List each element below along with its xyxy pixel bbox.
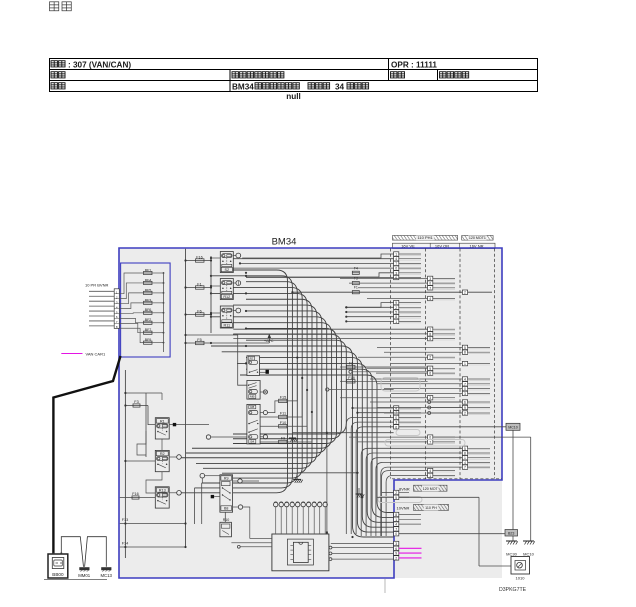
svg-text:4: 4: [395, 257, 397, 261]
open terminal circle 2: [326, 388, 394, 391]
inline fuse F3 on row: [352, 276, 359, 284]
connector separator (dashed) x460: [459, 249, 461, 479]
svg-text:6: 6: [464, 401, 466, 405]
svg-text:BF6: BF6: [145, 308, 152, 312]
baseline under battery group: [44, 578, 107, 580]
svg-text:110 PH: 110 PH: [425, 506, 437, 510]
net highlight outline 1: [381, 378, 420, 392]
wire to 1010 unit: [399, 497, 511, 566]
fuse BF9: [144, 338, 153, 344]
svg-text:1: 1: [464, 456, 466, 460]
open terminal circle: [349, 370, 428, 373]
svg-text:9: 9: [395, 552, 397, 556]
svg-text:R8: R8: [250, 405, 254, 409]
svg-text:4: 4: [464, 378, 466, 382]
ground wires goalpost: [61, 537, 106, 567]
unit 1010: [511, 557, 530, 581]
label 10 PR BVNR: [85, 283, 108, 288]
svg-text:BF5: BF5: [145, 288, 152, 292]
diagram code D3PKG7TE: [499, 587, 527, 593]
connector label 8VNR + 120 MOT (hatched): [399, 485, 447, 491]
svg-text:2: 2: [395, 491, 397, 495]
fuse BF4: [144, 278, 153, 284]
connector 16V OR pin boxes: [428, 276, 433, 478]
svg-text:R13: R13: [159, 488, 166, 492]
connector 8VNR/10VNR pin boxes: [394, 490, 399, 560]
wire col2 to ground drop: [433, 436, 531, 438]
ECU left wires: [231, 539, 272, 549]
fuse BF5: [144, 288, 153, 294]
table row2: 范围 | 防护装置和车门 | 功能 | 中央门锁: [51, 72, 469, 78]
R9 right terminals: [233, 479, 259, 539]
svg-text:1: 1: [464, 362, 466, 366]
svg-text:MM01: MM01: [78, 573, 91, 578]
terminal circle near R1: [206, 435, 247, 439]
wire bundle B (fan from relays, turns down mid-page): [181, 270, 346, 524]
svg-text:4: 4: [429, 469, 431, 473]
wire bundle C (to 8VNR/10VNR connector): [211, 346, 394, 537]
black terminal left of R9: [211, 495, 220, 498]
svg-text:5: 5: [395, 311, 397, 315]
svg-text:0: 0: [395, 416, 397, 420]
relay R1: [155, 418, 169, 439]
svg-text:2: 2: [429, 356, 431, 360]
svg-text:1: 1: [395, 518, 397, 522]
svg-text:3: 3: [395, 542, 397, 546]
ground mid: [293, 473, 357, 483]
svg-text:5: 5: [429, 337, 431, 341]
svg-text:7: 7: [464, 466, 466, 470]
svg-text:5: 5: [464, 346, 466, 350]
svg-text:D3PKG7TE: D3PKG7TE: [499, 587, 527, 593]
wire bus to R1 right circuit: [169, 423, 209, 426]
svg-text:OPR : 11111: OPR : 11111: [391, 60, 437, 69]
svg-text:null: null: [286, 92, 301, 101]
svg-text:F18: F18: [348, 376, 355, 380]
schematic title BM34: [272, 237, 297, 248]
svg-text:R9: R9: [224, 476, 229, 480]
ECU right wires to connector: [329, 546, 394, 560]
svg-text:8: 8: [395, 513, 397, 517]
ground MC10: [523, 541, 535, 557]
svg-text:8VNR: 8VNR: [399, 486, 410, 491]
svg-text:1010: 1010: [516, 576, 526, 581]
bus C (x125.4): [124, 370, 126, 558]
circle terminal above R9: [200, 473, 220, 483]
svg-text:MC10: MC10: [523, 552, 534, 557]
relay R7: [247, 356, 260, 376]
svg-text:7: 7: [395, 262, 397, 266]
svg-text:6: 6: [395, 425, 397, 429]
terminal mark near R7: [260, 370, 269, 374]
wires into 16V VE stack C: [346, 407, 393, 534]
ground small top: [289, 433, 298, 442]
connector label row frame: [393, 243, 496, 248]
svg-text:0: 0: [429, 436, 431, 440]
svg-text:3: 3: [429, 396, 431, 400]
svg-text:9: 9: [429, 367, 431, 371]
table row1: 车辆 : 307 (VAN/CAN) | OPR : 11111: [51, 60, 437, 69]
svg-text:F2: F2: [349, 362, 353, 366]
net highlight outline 2: [385, 440, 465, 447]
bus D (x146): [145, 393, 147, 457]
diagram gray panel: [119, 248, 502, 578]
svg-text:1: 1: [395, 320, 397, 324]
relay R11: [220, 306, 240, 328]
svg-text:R1: R1: [160, 419, 165, 423]
svg-text:BF4: BF4: [145, 278, 152, 282]
svg-text:5: 5: [464, 447, 466, 451]
svg-text:MC10: MC10: [508, 426, 518, 430]
page artifact line below panel: [384, 579, 386, 593]
svg-text:4: 4: [429, 297, 431, 301]
fuse F5: [184, 338, 212, 345]
svg-text:BM34: BM34: [232, 82, 254, 91]
svg-text:BB00: BB00: [52, 572, 64, 577]
10VNR pin stubs: [399, 515, 421, 525]
8VNR pin stubs: [399, 493, 409, 498]
svg-text:120 MOT: 120 MOT: [423, 487, 439, 491]
wire bus A to R6: [184, 334, 247, 385]
wire to MC10 label: [399, 426, 506, 428]
long vertical to circles: [293, 432, 394, 534]
title 打印 (Print): [50, 2, 72, 11]
svg-text:MC30: MC30: [506, 552, 517, 557]
pin box right stub wires: [399, 254, 492, 477]
bus A (x185.5): [185, 249, 187, 547]
wire F13: [120, 518, 187, 524]
svg-text:6: 6: [395, 276, 397, 280]
fuse F15: [268, 357, 299, 413]
fuse F1: [184, 282, 212, 289]
relay R10: [220, 518, 232, 537]
fuse F11: [260, 377, 303, 419]
svg-text:5: 5: [395, 496, 397, 500]
svg-text:3: 3: [464, 392, 466, 396]
+APC supply arrow: [211, 334, 274, 344]
svg-text:8: 8: [429, 332, 431, 336]
fuse F16: [184, 255, 212, 262]
svg-text:10 PR BVNR: 10 PR BVNR: [85, 283, 108, 288]
wires into sub pins from left: [331, 493, 394, 544]
junction dots: [245, 275, 364, 538]
fuse BF1: [144, 268, 153, 274]
fuse BF7: [144, 328, 153, 334]
svg-text:1: 1: [395, 253, 397, 257]
wires bus B to relays: [210, 257, 220, 314]
svg-text:BF2: BF2: [145, 318, 152, 322]
svg-text:6: 6: [395, 547, 397, 551]
svg-text:2: 2: [395, 306, 397, 310]
CAN wires (magenta): [399, 548, 422, 558]
ground mid2: [356, 488, 365, 498]
svg-text:0: 0: [464, 387, 466, 391]
svg-text:F1: F1: [354, 286, 358, 290]
battery BB00: [48, 553, 68, 578]
svg-text:BF7: BF7: [145, 328, 152, 332]
wire R2 feed: [124, 455, 181, 462]
relay R2: [155, 450, 169, 471]
fuse BF6: [144, 308, 153, 314]
svg-text:2: 2: [464, 291, 466, 295]
svg-text:B23: B23: [508, 532, 514, 536]
svg-text:110 PH1: 110 PH1: [417, 235, 433, 240]
table row3: 部件 | BM34 中央电气系统 发动机 34 保险丝: [51, 82, 369, 91]
svg-text:1: 1: [429, 474, 431, 478]
MC10 boxed label: [506, 423, 520, 430]
net highlight outline 4: [396, 430, 420, 436]
inline fuse F1 on row: [352, 286, 359, 294]
svg-text:F4: F4: [354, 266, 358, 270]
open terminals col2 area: [428, 401, 463, 415]
svg-text:2: 2: [395, 556, 397, 560]
svg-text:S2: S2: [224, 268, 229, 272]
svg-text:R2: R2: [160, 452, 165, 456]
header table frame: [50, 59, 538, 92]
svg-text:MB: MB: [250, 395, 255, 399]
battery supply wire (thick): [53, 356, 120, 554]
relay R9: [220, 475, 233, 512]
connector pin column (10PR): [114, 289, 119, 329]
svg-text:34: 34: [335, 82, 345, 91]
svg-text:F14: F14: [122, 542, 129, 546]
svg-text:: 307 (VAN/CAN): : 307 (VAN/CAN): [68, 60, 131, 69]
fuse BF3: [144, 298, 153, 304]
svg-text:7: 7: [395, 527, 397, 531]
drop wires to R10: [224, 512, 226, 522]
svg-text:0: 0: [395, 532, 397, 536]
ground MC13: [100, 567, 112, 578]
connector separator (dashed) x425.5: [425, 249, 427, 479]
wires into connector 10PR: [89, 291, 114, 326]
fuse F6: [184, 309, 212, 316]
svg-text:9: 9: [464, 406, 466, 410]
ECU inner frame: [287, 539, 313, 565]
relay S2: [220, 252, 240, 273]
wire y393: [124, 392, 162, 400]
staircase R1-R2: [137, 431, 162, 493]
fuse F10: [260, 389, 308, 428]
bus B (x211): [210, 256, 212, 333]
net highlight outline 3: [378, 497, 422, 503]
svg-text:1: 1: [429, 328, 431, 332]
relay R6: [247, 381, 268, 400]
ground MC30: [506, 541, 518, 557]
ground MM01: [78, 567, 91, 578]
relay R13: [155, 487, 169, 508]
svg-text:0: 0: [429, 282, 431, 286]
fuse F2: [340, 362, 428, 369]
svg-text:4: 4: [464, 461, 466, 465]
connector label 16V VE: [401, 243, 415, 248]
svg-text:10VNR: 10VNR: [397, 506, 410, 511]
connector label 10VNR + 110 PH (hatched): [397, 504, 449, 510]
wire R13 feed F16b: [120, 491, 182, 500]
fuse F18: [340, 376, 428, 383]
ECU block outer: [272, 534, 329, 571]
internal fuse box border (blue): [121, 263, 171, 357]
svg-text:4: 4: [395, 407, 397, 411]
connector label 16V OR: [435, 243, 449, 248]
B23 boxed label: [505, 530, 518, 537]
svg-text:7: 7: [464, 382, 466, 386]
svg-text:R10: R10: [223, 518, 230, 522]
fuse BF2: [144, 318, 153, 324]
fuse F9: [260, 411, 313, 444]
svg-text:4: 4: [395, 523, 397, 527]
wires into 16V OR pins: [233, 278, 427, 536]
wires relays to 16V VE upper pins: [233, 254, 393, 278]
svg-text:0: 0: [395, 267, 397, 271]
relay R12: [220, 279, 240, 300]
svg-text:BM34: BM34: [272, 237, 297, 248]
svg-text:BF9: BF9: [145, 338, 152, 342]
svg-text:3: 3: [395, 421, 397, 425]
IC chip: [290, 542, 311, 562]
svg-text:R11: R11: [223, 324, 230, 328]
svg-text:2: 2: [464, 412, 466, 416]
wires into 16V VE stack B: [345, 303, 393, 323]
svg-text:B4: B4: [250, 440, 254, 444]
connector separator (dashed) x494.5: [494, 249, 496, 479]
svg-text:MC13: MC13: [100, 573, 112, 578]
svg-text:8: 8: [464, 452, 466, 456]
connector header 110 PH1 (hatched): [393, 235, 458, 240]
connector region bottom (dashed) y479: [392, 478, 502, 480]
wire F14: [120, 542, 187, 548]
ground drop verticals: [513, 430, 531, 541]
svg-text:3: 3: [429, 277, 431, 281]
svg-text:B8: B8: [224, 507, 228, 511]
svg-text:R7: R7: [250, 356, 254, 360]
BM34 unit border (blue): [119, 248, 502, 578]
svg-text:F13: F13: [122, 518, 129, 522]
connector 16V NR pin boxes: [462, 290, 467, 470]
connector header 120 MOT1 (hatched): [462, 236, 493, 241]
svg-text:BF3: BF3: [145, 298, 152, 302]
relay R8 (tall): [247, 404, 268, 444]
svg-text:9: 9: [395, 301, 397, 305]
caption null: [286, 92, 301, 101]
connector separator (dashed) x390.6: [390, 249, 392, 479]
svg-text:7: 7: [429, 440, 431, 444]
connector 16V VE pin boxes: [394, 252, 399, 429]
svg-text:R12: R12: [223, 295, 230, 299]
sensor circles row: [274, 502, 328, 534]
wires into 16V NR pins: [291, 291, 462, 536]
svg-text:BF1: BF1: [145, 268, 152, 272]
svg-text:3: 3: [395, 271, 397, 275]
svg-text:8: 8: [464, 351, 466, 355]
svg-text:8: 8: [395, 315, 397, 319]
svg-text:VAN CAR1: VAN CAR1: [86, 351, 106, 356]
connector label 16V NR: [469, 243, 483, 248]
wire F3 feed: [124, 400, 155, 424]
wire to B23: [399, 533, 505, 535]
svg-text:7: 7: [429, 286, 431, 290]
wires pins to fuses + bus: [119, 272, 164, 352]
VAN CAR1 net (magenta): [61, 351, 106, 356]
svg-text:120 MOT1: 120 MOT1: [469, 236, 486, 240]
svg-text:6: 6: [429, 372, 431, 376]
